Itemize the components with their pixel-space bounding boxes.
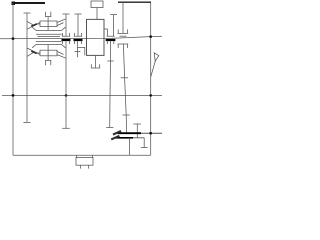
node rail B x13 junction <box>12 94 15 97</box>
electrode grid line mid-upper <box>38 35 61 37</box>
capacitor C3 lower plate (dark) <box>106 39 116 41</box>
tube U1 heater cup bottom <box>46 60 51 65</box>
node rail B x66 junction <box>65 94 68 97</box>
capacitor C1 lower plate ticks <box>63 41 70 44</box>
wire stem cup to R1 <box>47 17 49 21</box>
component top box <box>91 1 103 8</box>
wire lower-right diagonal lead <box>57 55 66 59</box>
battery BT1 box below bottom rail <box>76 158 93 166</box>
capacitor C4 middle short plate <box>120 35 127 37</box>
wire mid rail A horizontal <box>0 36 162 39</box>
capacitor C3 lower ticks <box>107 41 114 44</box>
terminal open end bar x66 <box>62 127 70 129</box>
capacitor C2 lower plate (dark) <box>74 39 83 41</box>
wire x78 upper stem <box>77 14 79 36</box>
capacitor C5 plate row2 (thick) <box>116 137 133 139</box>
arrow lower-left (thick dash) <box>27 52 34 56</box>
capacitor C5 plate row1 (thick) <box>118 132 142 134</box>
arrow lower-right small stroke <box>57 51 64 54</box>
electrode grid line upper <box>36 33 62 35</box>
wire x110 below rail B <box>109 95 111 127</box>
terminal T-bar x113 <box>110 14 117 16</box>
wire C4 lower stem long <box>123 44 126 133</box>
capacitor C4 upper U-plate <box>117 29 128 33</box>
tick crossbar y115 <box>123 114 130 116</box>
wire center tap through R2 <box>47 45 49 56</box>
wire upper-left diagonal lead <box>27 23 40 30</box>
wire left rail vertical <box>12 3 14 155</box>
node row1 x150 junction <box>149 132 152 135</box>
node rail B x150 junction <box>149 94 152 97</box>
node top-left corner junction <box>12 2 16 6</box>
terminal open end bar x110 <box>106 127 113 129</box>
terminal bar x110 <box>107 60 113 62</box>
tick crossbar y77 <box>121 77 128 79</box>
tube U1 heater cup top <box>46 12 51 17</box>
capacitor C1 lower plate (dark) <box>62 39 71 41</box>
arrow upper-right small stroke <box>57 23 64 26</box>
block U2 big box <box>87 19 105 55</box>
capacitor C4 lower U-plate <box>117 44 128 48</box>
wire x110 bar to rail B <box>109 61 112 95</box>
capacitor C1 upper plate with up ticks <box>62 33 70 36</box>
arrow upper-left (thick dash) <box>27 21 34 25</box>
wire x27 vertical <box>26 13 28 122</box>
wire bottom rail <box>13 154 151 156</box>
wire C2 stub with bar <box>75 41 81 57</box>
switch S1 blade <box>151 61 156 77</box>
wire stem below U2 <box>95 55 97 68</box>
wire upper-right diagonal lead <box>57 19 66 23</box>
wire x66 below rail B <box>65 95 67 128</box>
switch S1 flag <box>154 53 159 61</box>
wire x66 upper stem <box>65 14 67 36</box>
wire leg x129 to bottom rail <box>129 138 131 156</box>
node rail A x13 junction <box>12 37 15 40</box>
electrode cup below U2 <box>91 64 99 68</box>
electrode plate bottom (bent ends) <box>32 45 65 48</box>
terminal T-bar x66 top <box>62 13 69 15</box>
terminal T-bar x27 <box>24 12 31 14</box>
wire x137 stem <box>136 124 138 138</box>
wire top-right bar <box>118 1 151 3</box>
terminal T-bar x78 top <box>74 13 81 15</box>
wire leg x144 with end bar <box>141 138 148 148</box>
electrode plate top (bent ends) <box>32 27 65 30</box>
arrow C5 row1 slanted dash <box>113 131 121 135</box>
wire C2 bottom staircase to box <box>78 47 85 55</box>
resistor R1 box <box>40 21 57 27</box>
electrode grid line lower <box>36 40 62 42</box>
wire right rail vertical <box>150 3 152 156</box>
wire x113 stem <box>113 15 115 37</box>
capacitor C2 lower plate ticks <box>75 41 82 44</box>
terminal T-bar x137 <box>133 123 141 125</box>
wire BT1 bottom stubs <box>81 165 89 168</box>
wire jog from box to C3 <box>104 29 107 36</box>
wire stem R2 to cup <box>47 56 49 61</box>
resistor R2 box <box>40 50 57 56</box>
capacitor C3 upper plate <box>107 35 115 37</box>
terminal open end bar x27 <box>23 122 30 124</box>
node rail A x150 junction <box>149 35 152 38</box>
arrow C5 row2 slanted dash <box>111 136 119 140</box>
wire top box lead down <box>96 8 98 20</box>
wire mid rail B horizontal <box>2 94 162 96</box>
wire top power bar left <box>12 2 45 4</box>
capacitor C2 upper plate with up ticks <box>74 33 82 36</box>
wire BT1 top stubs <box>77 155 93 157</box>
wire x123 top stem <box>122 2 124 33</box>
wire lower-left diagonal lead <box>27 48 40 55</box>
wire x110 below C3 <box>110 41 112 61</box>
wire x66 lower stem to rail B <box>65 41 67 96</box>
wire center tap through R1 <box>47 21 49 30</box>
